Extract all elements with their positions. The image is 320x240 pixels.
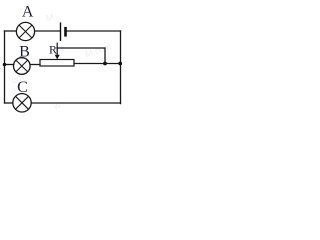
svg-text:R: R [49,42,57,56]
svg-text:A: A [22,3,34,20]
svg-text:B: B [19,44,30,61]
svg-text:M: M [45,12,55,24]
svg-text:w: w [51,100,62,112]
svg-text:M.com: M.com [84,41,113,59]
svg-text:C: C [17,79,28,96]
